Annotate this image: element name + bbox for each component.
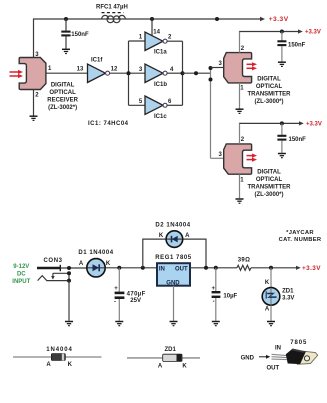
svg-text:ZD1: ZD1 (282, 288, 294, 294)
svg-text:CON3: CON3 (44, 258, 63, 264)
wire IC1c out to output bus (167, 104, 182, 106)
svg-text:1N4004: 1N4004 (46, 347, 72, 353)
diode D1 1N4004 (78, 250, 113, 277)
ground below 150nF T2 (278, 154, 286, 158)
svg-text:GND: GND (241, 356, 255, 362)
svg-text:12: 12 (111, 67, 118, 73)
svg-text:D1 1N4004: D1 1N4004 (78, 250, 113, 256)
op IC1b inverter (145, 64, 167, 88)
op IC1c inverter (145, 96, 167, 120)
capacitor C2 150nF top-left (61, 19, 89, 49)
svg-text:GND: GND (166, 280, 180, 286)
svg-text:ZD1: ZD1 (165, 347, 177, 353)
regulator 7805 pinout (241, 340, 318, 372)
svg-text:K: K (265, 280, 270, 286)
wire top +3.3V rail (34, 17, 266, 58)
svg-text:IN: IN (159, 267, 165, 273)
svg-text:OPTICAL: OPTICAL (256, 84, 283, 90)
wire jack to ground (68, 281, 70, 321)
wire T1 pin1 to ground (239, 83, 241, 109)
svg-text:IC1a: IC1a (154, 50, 167, 56)
node dot D2 left branch (141, 266, 145, 270)
inductor RFC1 47uH (96, 4, 128, 22)
node dot input bus (127, 71, 131, 75)
wire T2 pin1 to ground (239, 174, 241, 198)
ground below ZD1 (267, 322, 275, 326)
svg-text:DC: DC (17, 272, 26, 278)
svg-text:+3.3V: +3.3V (305, 30, 321, 36)
svg-text:IC1c: IC1c (154, 114, 167, 120)
ground below REG1 (170, 322, 178, 326)
wire IC1f out to input bus (110, 72, 145, 74)
op IC1f inverter (88, 58, 110, 83)
svg-text:OPTICAL: OPTICAL (256, 177, 283, 183)
ground below 10uF (212, 322, 220, 326)
svg-text:OPTICAL: OPTICAL (49, 90, 76, 96)
node dot mid branch (194, 71, 198, 75)
wire IC1b out to output bus (167, 72, 182, 74)
node junction dot top rail right (215, 17, 219, 21)
svg-text:A: A (185, 233, 190, 239)
diode 1N4004 pinout (13, 347, 102, 368)
wire REG1 gnd to ground (173, 286, 175, 321)
svg-text:K: K (68, 362, 73, 368)
label 9-12V DC INPUT (12, 264, 30, 285)
svg-text:OUT: OUT (175, 267, 188, 273)
optical receiver IC (ZL-3002) (19, 58, 46, 90)
ground below T1 (236, 109, 244, 113)
svg-text:150nF: 150nF (289, 137, 307, 143)
regulator REG1 7805 (155, 255, 191, 286)
svg-text:150nF: 150nF (288, 42, 306, 48)
svg-text:IC1f: IC1f (91, 58, 103, 64)
node dot output bus (181, 71, 185, 75)
svg-text:DIGITAL: DIGITAL (51, 82, 75, 88)
wire bus to IC1a input (129, 40, 146, 42)
svg-text:10µF: 10µF (223, 293, 237, 299)
node dot branch top (209, 66, 213, 70)
ground below T2 (236, 199, 244, 203)
label JAYCAR note (279, 230, 322, 243)
wire receiver pin1 to IC1f (46, 72, 88, 74)
capacitor 150nF T1 (277, 32, 305, 62)
label T1 text (248, 76, 292, 105)
diode D2 1N4004 bypass (143, 223, 206, 268)
svg-text:CAT. NUMBER: CAT. NUMBER (279, 237, 322, 243)
svg-text:D2 1N4004: D2 1N4004 (155, 223, 190, 229)
svg-text:INPUT: INPUT (12, 279, 30, 285)
svg-text:A: A (79, 261, 84, 267)
op IC1a inverter (145, 32, 167, 56)
optical transmitter 1 (ZL-3000) (224, 53, 257, 83)
wire receiver pin2 to ground (33, 90, 35, 116)
node dot 10uF branch (214, 266, 218, 270)
svg-text:9-12V: 9-12V (13, 264, 29, 270)
svg-text:RFC1 47µH: RFC1 47µH (96, 4, 128, 10)
wire input bus vertical (128, 41, 130, 105)
node junction dot top rail at C2 (64, 17, 68, 21)
wire bus to IC1c input (129, 104, 146, 106)
wire T2 +3.3V rail (240, 121, 304, 125)
connector CON3 dc jack (37, 265, 87, 281)
svg-text:3.3V: 3.3V (282, 296, 294, 302)
ground below 150nF T1 (278, 62, 286, 66)
node dot 470uF branch (117, 266, 121, 270)
red arrows into receiver (10, 70, 24, 78)
node junction dot top rail at pin14 (150, 17, 154, 21)
label T2 text (248, 169, 292, 198)
svg-text:(ZL-3002*): (ZL-3002*) (48, 105, 77, 111)
wire T1 +3.3V rail (240, 29, 303, 33)
wire T2 pin2 to rail (240, 123, 241, 143)
svg-text:A: A (265, 307, 270, 313)
node dot T1 rail (280, 30, 284, 34)
ground below C2 (62, 49, 70, 53)
optical transmitter 2 (ZL-3000) (224, 144, 257, 174)
wire pin14 vertical (151, 19, 153, 36)
svg-text:(ZL-3000*): (ZL-3000*) (254, 192, 283, 198)
svg-text:DIGITAL: DIGITAL (257, 76, 281, 82)
node dot branch bottom (209, 78, 213, 82)
ground below 470uF (115, 322, 123, 326)
svg-text:-: - (213, 299, 215, 305)
svg-text:+3.3V: +3.3V (302, 265, 321, 272)
svg-text:TRANSMITTER: TRANSMITTER (248, 91, 292, 97)
svg-text:A: A (46, 362, 51, 368)
wire branch to T2 pin3 (211, 157, 224, 159)
svg-text:*JAYCAR: *JAYCAR (286, 230, 314, 236)
svg-text:+: + (212, 286, 216, 292)
label receiver text (47, 82, 78, 111)
svg-text:13: 13 (77, 67, 84, 73)
svg-text:25V: 25V (130, 298, 141, 304)
svg-text:K: K (182, 363, 187, 369)
svg-text:IN: IN (275, 346, 281, 352)
svg-text:14: 14 (153, 29, 160, 35)
node dot jack switch (67, 271, 71, 275)
wire D1 to REG1 (105, 267, 157, 269)
svg-text:REG1 7805: REG1 7805 (155, 255, 191, 261)
wire output bus to branch (183, 72, 211, 74)
svg-text:150nF: 150nF (71, 32, 89, 38)
node dot ZD1 branch (269, 266, 273, 270)
node dot T2 rail (280, 121, 284, 125)
wire T1 pin2 to rail (240, 32, 241, 53)
svg-text:+3.3V: +3.3V (269, 16, 289, 23)
svg-text:OUT: OUT (267, 366, 280, 372)
svg-text:RECEIVER: RECEIVER (47, 97, 78, 103)
svg-text:DIGITAL: DIGITAL (257, 169, 281, 175)
resistor 39 ohm (237, 258, 251, 271)
capacitor 10uF (212, 268, 238, 321)
capacitor 150nF T2 (277, 123, 306, 152)
diode ZD1 pinout (127, 347, 200, 369)
svg-text:K: K (159, 233, 164, 239)
svg-text:7805: 7805 (290, 340, 307, 346)
ground below jack (65, 322, 73, 326)
wire branch to T1 pin3 (211, 67, 224, 69)
svg-text:TRANSMITTER: TRANSMITTER (248, 184, 292, 190)
capacitor 470uF 25V (114, 268, 146, 321)
wire REG1 out to +3.3V (190, 266, 301, 270)
node dot D2 right (204, 266, 208, 270)
zener ZD1 3.3V (262, 268, 294, 321)
svg-text:470µF: 470µF (127, 291, 146, 297)
svg-text:+: + (114, 286, 118, 292)
svg-text:A: A (158, 363, 163, 369)
node dot jack sleeve (67, 279, 71, 283)
ground below receiver (30, 116, 38, 120)
wire IC1a out to output bus (167, 40, 182, 42)
svg-text:39Ω: 39Ω (238, 258, 250, 264)
wire branch vertical (210, 68, 212, 159)
svg-text:K: K (106, 261, 111, 267)
svg-text:+3.3V: +3.3V (306, 122, 322, 128)
svg-text:IC1b: IC1b (154, 82, 167, 88)
svg-text:-: - (114, 299, 116, 305)
svg-text:(ZL-3000*): (ZL-3000*) (254, 99, 283, 105)
svg-text:IC1: 74HC04: IC1: 74HC04 (88, 121, 129, 127)
wire output bus vertical (182, 41, 184, 105)
node dot jack pin (67, 266, 71, 270)
